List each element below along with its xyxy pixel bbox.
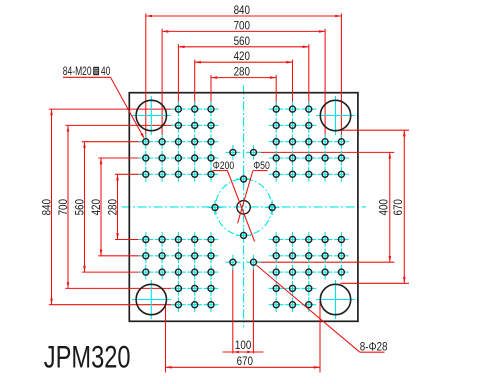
svg-text:700: 700 xyxy=(57,199,70,215)
svg-text:280: 280 xyxy=(107,199,120,215)
svg-text:420: 420 xyxy=(234,50,250,63)
svg-text:560: 560 xyxy=(234,35,250,48)
svg-text:840: 840 xyxy=(234,4,250,17)
svg-text:700: 700 xyxy=(234,20,250,33)
svg-text:JPM320: JPM320 xyxy=(44,339,131,374)
svg-text:84-M20: 84-M20 xyxy=(63,66,92,79)
svg-text:670: 670 xyxy=(237,355,253,368)
svg-text:420: 420 xyxy=(90,199,103,215)
svg-text:280: 280 xyxy=(234,66,250,79)
svg-text:670: 670 xyxy=(392,199,405,215)
svg-text:100: 100 xyxy=(235,339,251,352)
svg-text:560: 560 xyxy=(74,199,87,215)
svg-text:840: 840 xyxy=(41,199,54,215)
svg-text:8-Φ28: 8-Φ28 xyxy=(360,341,388,354)
svg-text:40: 40 xyxy=(101,66,111,79)
svg-text:400: 400 xyxy=(377,199,390,215)
